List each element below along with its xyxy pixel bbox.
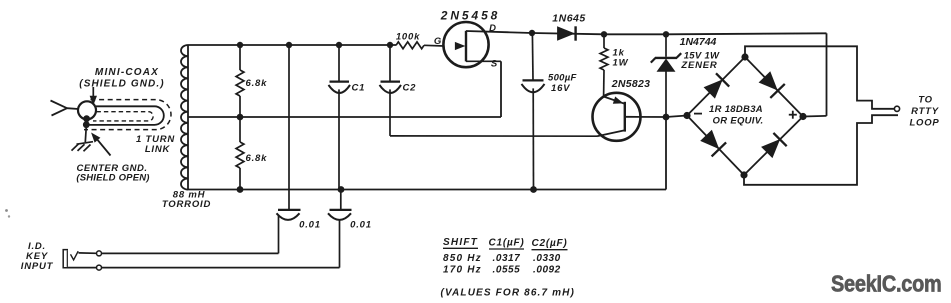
svg-text:(SHIELD GND.): (SHIELD GND.) [79, 78, 164, 89]
svg-text:MINI-COAX: MINI-COAX [95, 67, 159, 78]
svg-text:G: G [434, 36, 442, 47]
svg-text:850 Hz: 850 Hz [443, 253, 482, 264]
svg-text:2N5823: 2N5823 [611, 78, 651, 90]
svg-text:SeekIC.com: SeekIC.com [831, 271, 942, 297]
svg-text:LINK: LINK [145, 144, 171, 155]
svg-text:100k: 100k [396, 32, 420, 43]
svg-text:0.01: 0.01 [350, 219, 372, 230]
svg-text:LOOP: LOOP [909, 118, 939, 129]
svg-text:C2(µF): C2(µF) [531, 238, 567, 249]
svg-text:1W: 1W [613, 58, 629, 69]
svg-text:.0317: .0317 [493, 253, 521, 264]
svg-text:1R 18DB3A: 1R 18DB3A [709, 104, 763, 115]
svg-text:TO: TO [918, 95, 933, 106]
svg-text:.0092: .0092 [533, 264, 561, 275]
svg-text:6.8k: 6.8k [246, 153, 268, 164]
svg-text:OR EQUIV.: OR EQUIV. [713, 115, 764, 126]
svg-text:170 Hz: 170 Hz [443, 264, 482, 275]
svg-text:C1: C1 [352, 83, 366, 94]
svg-text:1N4744: 1N4744 [680, 36, 717, 48]
svg-text:16V: 16V [551, 83, 570, 94]
svg-text:.0330: .0330 [533, 253, 561, 264]
svg-text:SHIFT: SHIFT [443, 237, 478, 248]
svg-text:C2: C2 [403, 83, 417, 94]
svg-text:2N5458: 2N5458 [440, 8, 500, 22]
svg-text:(VALUES FOR 86.7 mH): (VALUES FOR 86.7 mH) [441, 287, 576, 298]
svg-text:1N645: 1N645 [552, 12, 585, 24]
svg-text:6.8k: 6.8k [246, 78, 268, 89]
svg-text:RTTY: RTTY [911, 106, 940, 117]
svg-text:C1(µF): C1(µF) [488, 237, 524, 248]
svg-text:ZENER: ZENER [680, 60, 717, 71]
svg-text:S: S [491, 59, 498, 70]
svg-text:D: D [489, 23, 497, 34]
svg-text:TORROID: TORROID [162, 199, 211, 210]
svg-text:INPUT: INPUT [21, 261, 54, 272]
svg-text:0.01: 0.01 [299, 219, 321, 230]
svg-text:.0555: .0555 [493, 264, 521, 275]
svg-text:(SHIELD OPEN): (SHIELD OPEN) [76, 173, 149, 184]
